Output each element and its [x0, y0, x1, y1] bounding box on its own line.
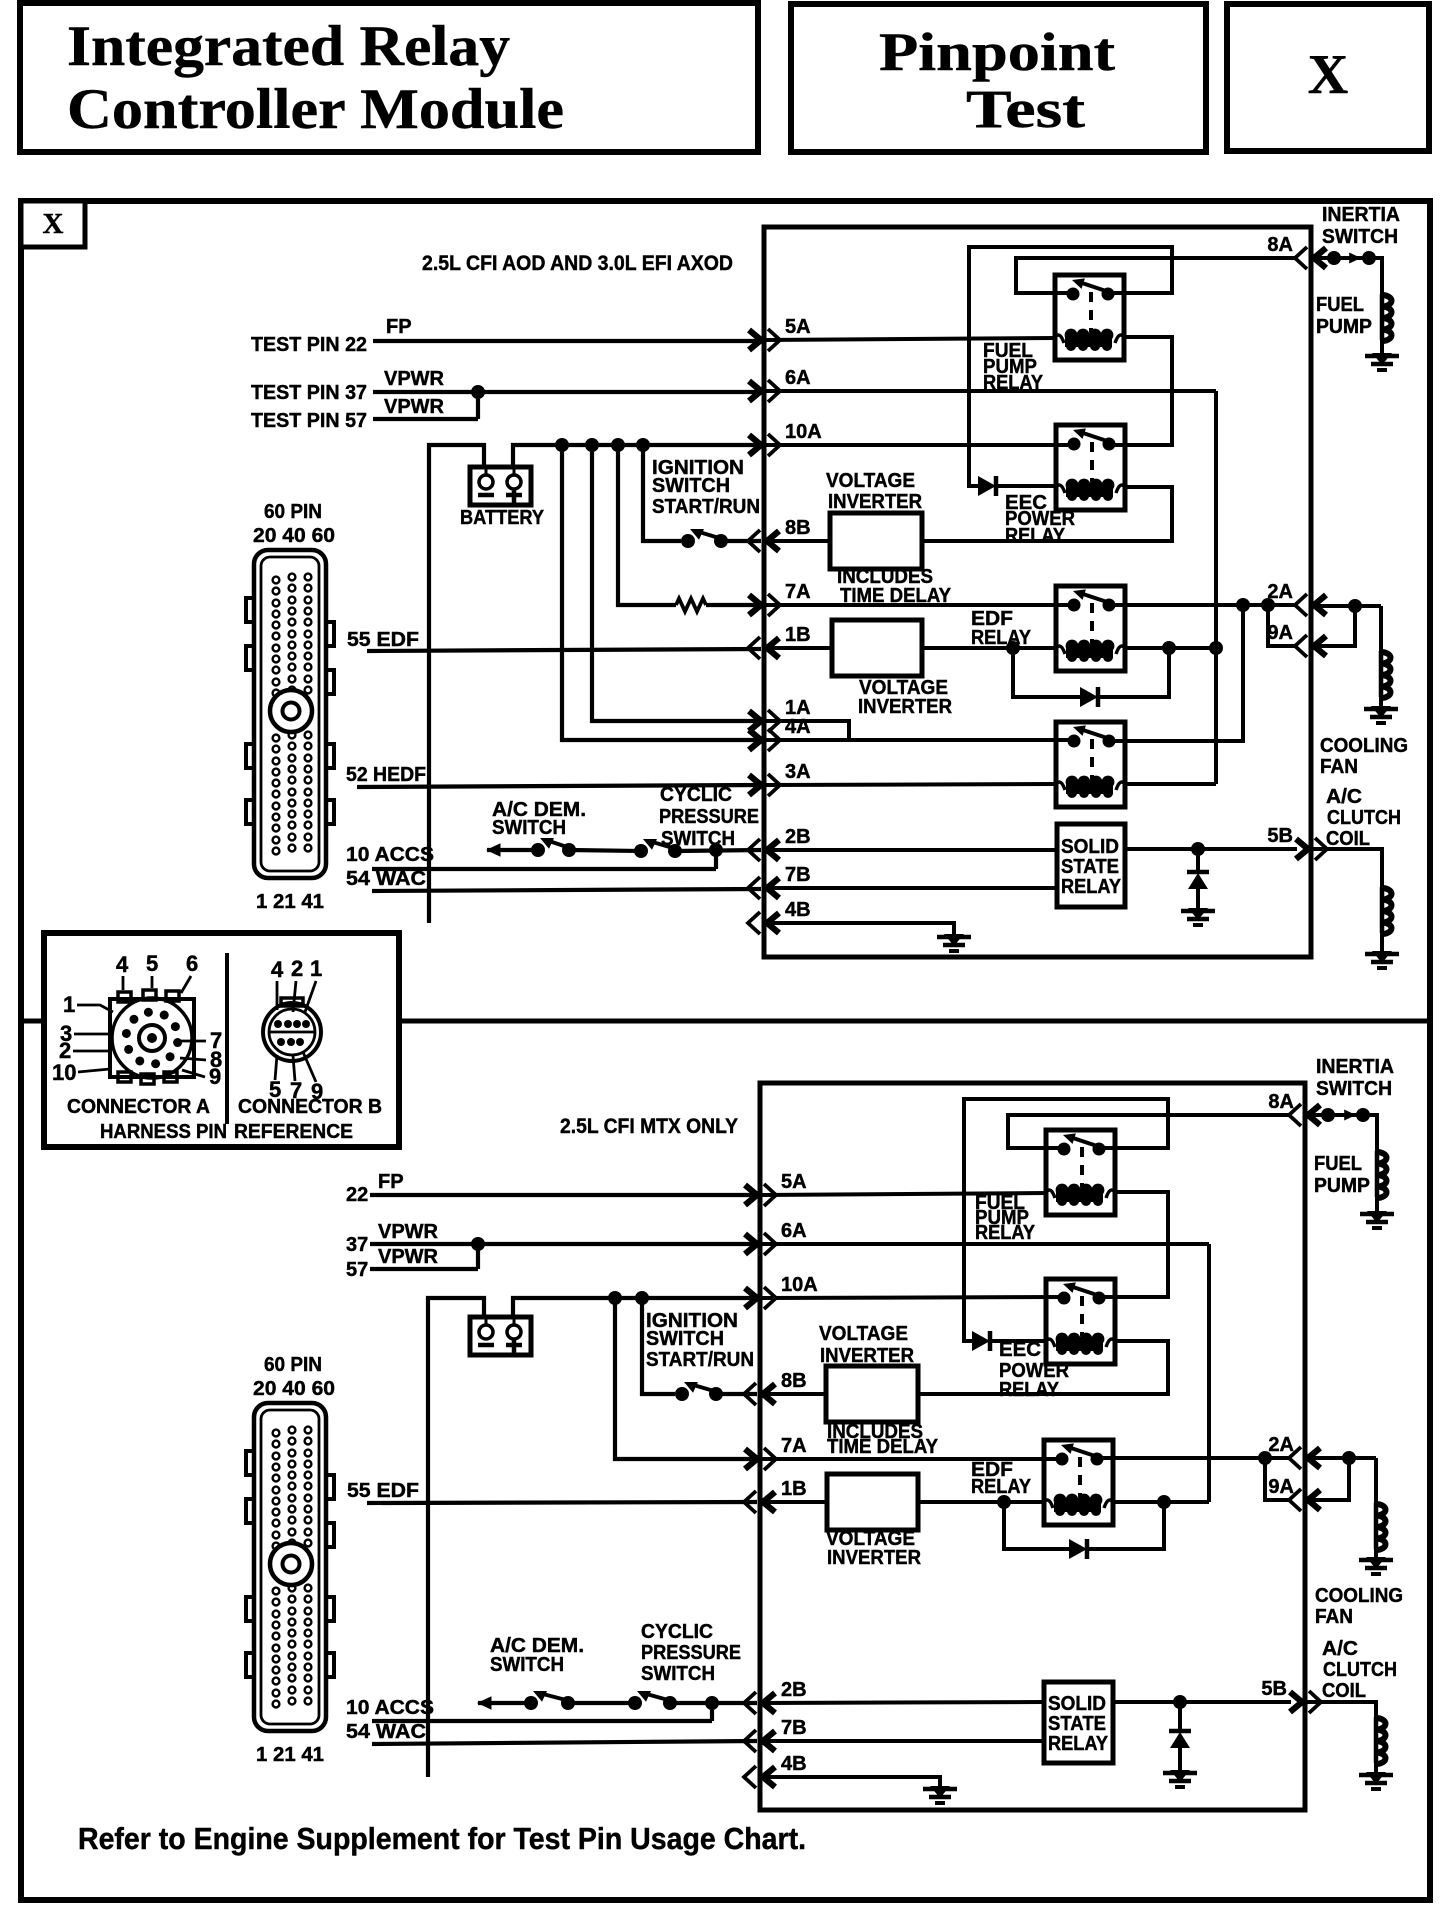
svg-text:7A: 7A: [781, 1435, 807, 1457]
wire 7A to EDF relay switch lower: [760, 1457, 1062, 1461]
solid state relay U6: [1044, 1682, 1113, 1763]
wire 2A to cooling fan: [1311, 604, 1381, 608]
wire 8B to voltage inverter lower: [760, 1392, 826, 1396]
ground clamp diode lower: [1170, 1770, 1190, 1782]
svg-text:RELAY: RELAY: [1048, 1733, 1109, 1755]
wire HEDF relay switch to 2A node: [1109, 605, 1243, 741]
inertia switch S4: [1327, 251, 1341, 265]
svg-text:22: 22: [346, 1184, 368, 1206]
svg-text:10A: 10A: [785, 421, 822, 443]
wire solid state relay to 5B lower: [1113, 1700, 1291, 1704]
svg-text:FAN: FAN: [1315, 1606, 1353, 1628]
wire fuel pump relay coil to EEC relay switch: [1110, 337, 1172, 445]
svg-text:8A: 8A: [1268, 1091, 1294, 1113]
svg-text:7A: 7A: [785, 581, 811, 603]
svg-text:CYCLIC: CYCLIC: [660, 784, 732, 806]
wire to ignition switch: [643, 445, 681, 541]
ground A/C clutch coil lower: [1366, 1772, 1386, 1784]
wire to pin 1A: [592, 445, 761, 721]
wire 10A to EEC power relay switch lower: [760, 1297, 1064, 1298]
wire 6A to EDF coil vertical lower: [760, 1242, 1209, 1246]
pin 10A arrow at module edge: [749, 435, 761, 455]
wire 54 WAC to 7B lower: [372, 1741, 757, 1744]
wire diode to EEC relay coil lower: [990, 1339, 1046, 1343]
wire fuel pump relay switch loop: [969, 247, 1172, 486]
svg-text:5A: 5A: [785, 316, 811, 338]
svg-text:10: 10: [52, 1060, 76, 1085]
wire fuel pump to ground: [1380, 340, 1384, 353]
pin 4B arrow at lower module edge: [763, 1767, 775, 1787]
pin 8A arrow at module edge: [1314, 248, 1326, 268]
svg-text:5B: 5B: [1261, 1678, 1287, 1700]
svg-text:4B: 4B: [781, 1753, 807, 1775]
voltage inverter U2: [832, 620, 922, 676]
svg-text:SWITCH: SWITCH: [492, 817, 566, 839]
junction dot VPWR: [471, 385, 485, 399]
pin 8B arrow at module edge: [767, 531, 779, 551]
svg-text:CYCLIC: CYCLIC: [641, 1621, 713, 1643]
EEC power relay K2: [1056, 425, 1125, 510]
svg-text:REFERENCE: REFERENCE: [234, 1121, 353, 1143]
junction dot 5B clamp: [1191, 842, 1205, 856]
pin 5B arrow at lower module edge: [1290, 1692, 1302, 1712]
wire A/C clutch coil to ground: [1380, 933, 1384, 951]
wire ignition switch to pin 8B: [721, 539, 761, 543]
svg-text:9: 9: [209, 1064, 221, 1089]
ground cooling fan: [1371, 706, 1391, 718]
junction dot 10A-1: [555, 438, 569, 452]
svg-text:FUEL: FUEL: [1314, 1153, 1362, 1175]
wire diode to EEC power relay coil: [996, 484, 1056, 488]
wire 5A to fuel pump relay coil lower: [760, 1193, 1046, 1195]
wire 1B to voltage inverter 2: [764, 646, 832, 650]
diode CR4 to EEC power relay coil lower: [972, 1331, 990, 1351]
junction dot ACCS tap: [709, 843, 723, 857]
wire battery positive to pin 10A: [513, 445, 761, 467]
svg-text:4B: 4B: [785, 899, 811, 921]
wire 6A to HEDF relay coil vertical: [764, 389, 1216, 393]
pin 7A arrow at module edge: [749, 595, 761, 615]
pin 9A arrow at lower module edge: [1308, 1490, 1320, 1510]
A/C demand switch S2: [531, 843, 545, 857]
title block: Integrated Relay Controller Module: [20, 3, 758, 152]
svg-text:PRESSURE: PRESSURE: [641, 1642, 741, 1664]
wire 2A to cooling fan lower: [1305, 1456, 1376, 1460]
svg-text:TEST PIN 37: TEST PIN 37: [251, 382, 367, 404]
solid state relay U3: [1057, 824, 1125, 907]
svg-text:2B: 2B: [781, 1679, 807, 1701]
junction dot 10A-2: [585, 438, 599, 452]
junction dot 5B clamp lower: [1173, 1695, 1187, 1709]
svg-text:RELAY: RELAY: [971, 627, 1032, 649]
EDF relay K3: [1056, 586, 1125, 671]
wire fuel pump to ground lower: [1375, 1197, 1379, 1211]
wire 8A to inertia switch: [1311, 256, 1334, 260]
A/C demand switch S6: [524, 1696, 538, 1710]
svg-text:54 WAC: 54 WAC: [346, 868, 426, 890]
svg-text:COOLING: COOLING: [1315, 1585, 1403, 1607]
junction dot EDF coil right lower: [1157, 1495, 1171, 1509]
svg-text:INVERTER: INVERTER: [858, 696, 953, 718]
pin 1B arrow at lower module edge: [763, 1492, 775, 1512]
svg-text:SWITCH: SWITCH: [641, 1663, 715, 1685]
wire to cyclic pressure switch lower: [568, 1701, 635, 1705]
svg-text:2: 2: [291, 956, 303, 981]
pin 5B arrow at module edge: [1296, 839, 1308, 859]
clamp diode CR3: [1196, 849, 1200, 872]
EDF relay flyback diode CR2: [1013, 648, 1080, 697]
svg-text:START/RUN: START/RUN: [652, 496, 760, 518]
svg-text:EEC: EEC: [999, 1339, 1041, 1361]
wire pin 55 EDF to 1B: [367, 649, 761, 651]
svg-text:TEST PIN 57: TEST PIN 57: [251, 410, 367, 432]
pin 2B arrow at lower module edge: [763, 1693, 775, 1713]
svg-text:9A: 9A: [1268, 1476, 1294, 1498]
svg-text:RELAY: RELAY: [1061, 876, 1122, 898]
svg-text:PRESSURE: PRESSURE: [659, 806, 759, 828]
svg-text:3A: 3A: [785, 761, 811, 783]
svg-text:2B: 2B: [785, 826, 811, 848]
wire A/C demand line with end arrow: [487, 848, 540, 852]
svg-text:INVERTER: INVERTER: [820, 1345, 915, 1367]
wire voltage inverter 2 to EDF relay coil: [922, 646, 1056, 650]
wire to resistor / pin 7A: [618, 445, 676, 605]
pin 7A arrow at lower module edge: [745, 1449, 757, 1469]
junction dot 10A lower 2: [635, 1291, 649, 1305]
pin 4B arrow at module edge: [767, 913, 779, 933]
svg-text:60 PIN: 60 PIN: [264, 501, 322, 523]
wire 4B to internal ground lower: [760, 1777, 940, 1786]
connector A illustration: [110, 999, 194, 1077]
svg-text:FP: FP: [378, 1171, 404, 1193]
svg-text:A/C: A/C: [1322, 1638, 1358, 1660]
svg-text:RELAY: RELAY: [975, 1222, 1036, 1244]
wire pin 10 ACCS: [372, 867, 716, 871]
cyclic pressure switch S7: [628, 1696, 642, 1710]
wire voltage inverter to EEC power relay coil: [922, 487, 1172, 541]
svg-text:7B: 7B: [785, 864, 811, 886]
ground A/C clutch coil: [1372, 951, 1392, 963]
EDF relay flyback diode CR5: [1004, 1502, 1069, 1549]
pin 7B arrow at module edge: [767, 878, 779, 898]
svg-text:4: 4: [116, 952, 129, 977]
pin 1B arrow at module edge: [767, 638, 779, 658]
svg-text:20 40 60: 20 40 60: [253, 525, 335, 547]
pin 10A arrow at lower module edge: [745, 1288, 757, 1308]
svg-text:VPWR: VPWR: [384, 396, 445, 418]
cyclic pressure switch S3: [634, 844, 648, 858]
wire 3A to HEDF relay coil: [764, 784, 1056, 785]
svg-text:PUMP: PUMP: [1314, 1175, 1370, 1197]
svg-text:FP: FP: [386, 316, 412, 338]
svg-text:CLUTCH: CLUTCH: [1327, 807, 1401, 829]
ground fuel pump lower: [1367, 1211, 1387, 1223]
svg-text:8B: 8B: [781, 1370, 807, 1392]
pin 8B arrow at lower module edge: [763, 1384, 775, 1404]
fuel pump relay K1: [1055, 275, 1124, 360]
wire battery negative lower: [428, 1298, 484, 1777]
wire down to cooling fan coil: [1379, 606, 1383, 651]
svg-text:55 EDF: 55 EDF: [347, 629, 419, 651]
svg-text:1B: 1B: [781, 1478, 807, 1500]
svg-text:4: 4: [271, 957, 284, 982]
junction dot EDF coil right: [1162, 641, 1176, 655]
wire 2B to solid state relay lower: [760, 1702, 1044, 1703]
wire cooling fan to ground lower: [1374, 1549, 1378, 1557]
svg-text:6: 6: [186, 951, 198, 976]
fuel pump relay K5: [1046, 1130, 1115, 1215]
svg-text:A/C: A/C: [1326, 786, 1362, 808]
pin 2B arrow at module edge: [767, 840, 779, 860]
junction dot 2A/9A lower: [1342, 1451, 1356, 1465]
wire voltage inverter 2 to EDF relay coil lower: [918, 1500, 1044, 1504]
wire resistor to pin 7A: [706, 603, 761, 607]
svg-text:INERTIA: INERTIA: [1316, 1056, 1394, 1078]
svg-text:FAN: FAN: [1320, 756, 1358, 778]
svg-text:RELAY: RELAY: [999, 1379, 1060, 1401]
junction dot 2A lower: [1258, 1451, 1272, 1465]
wire EDF relay switch to 2A lower: [1097, 1456, 1291, 1460]
svg-text:55 EDF: 55 EDF: [347, 1480, 419, 1502]
wire solid state relay to 5B: [1125, 847, 1297, 851]
svg-text:1: 1: [310, 956, 322, 981]
wire 9A jumper: [1268, 605, 1297, 646]
pin 9A arrow at module edge: [1314, 636, 1326, 656]
fuel pump motor coil M1: [1380, 294, 1385, 340]
pin 5A arrow at lower module edge: [745, 1185, 757, 1205]
connector B illustration: [263, 1003, 321, 1061]
svg-text:STATE: STATE: [1048, 1713, 1106, 1735]
svg-text:1B: 1B: [785, 624, 811, 646]
wire ignition switch to 8B lower: [716, 1392, 757, 1396]
upper integrated relay controller module box: [764, 227, 1311, 957]
svg-text:COIL: COIL: [1326, 828, 1370, 850]
wire battery negative to ground vertical: [429, 445, 484, 923]
svg-text:SWITCH: SWITCH: [652, 475, 730, 497]
wire 8A feed to fuel pump relay switch lower: [1008, 1115, 1291, 1148]
wire fuel pump relay coil to EEC relay switch lower: [1101, 1192, 1168, 1297]
svg-text:START/RUN: START/RUN: [646, 1349, 754, 1371]
junction dot ACCS tap lower: [705, 1696, 719, 1710]
svg-text:20 40 60: 20 40 60: [253, 1378, 335, 1400]
svg-text:10 ACCS: 10 ACCS: [346, 1697, 434, 1719]
pin 3A arrow at module edge: [749, 775, 761, 795]
wire VPWR 57 lower: [370, 1267, 478, 1271]
svg-text:TIME DELAY: TIME DELAY: [827, 1436, 939, 1458]
wire 4B to internal ground: [764, 923, 954, 934]
junction dot VPWR lower: [471, 1237, 485, 1251]
wire to cyclic pressure switch: [569, 850, 641, 851]
svg-text:1 21 41: 1 21 41: [256, 1744, 324, 1766]
wire 10 ACCS lower: [372, 1719, 712, 1723]
svg-text:PUMP: PUMP: [1316, 316, 1372, 338]
svg-text:2A: 2A: [1268, 1434, 1294, 1456]
ground fuel pump: [1372, 353, 1392, 365]
resistor R1: [676, 599, 706, 612]
svg-text:60 PIN: 60 PIN: [264, 1354, 322, 1376]
wire 7A to EDF relay switch: [764, 603, 1074, 607]
wire 9A external jumper lower: [1305, 1458, 1349, 1500]
pin 7B arrow at lower module edge: [763, 1731, 775, 1751]
svg-text:COIL: COIL: [1322, 1680, 1366, 1702]
wire voltage inverter to EEC relay coil lower: [918, 1341, 1168, 1394]
svg-text:37: 37: [346, 1234, 368, 1256]
voltage inverter U5: [827, 1474, 918, 1530]
wire inertia switch to fuel pump: [1369, 258, 1382, 294]
diode CR1 to EEC power relay coil: [978, 476, 996, 496]
pin 2A arrow at module edge: [1314, 595, 1326, 615]
svg-text:Refer to Engine Supplement for: Refer to Engine Supplement for Test Pin …: [78, 1821, 806, 1856]
lower integrated relay controller module box: [760, 1083, 1305, 1810]
junction dot 10A-3: [611, 438, 625, 452]
svg-text:COOLING: COOLING: [1320, 735, 1408, 757]
wire down to cooling fan coil lower: [1374, 1458, 1378, 1503]
svg-text:INVERTER: INVERTER: [827, 1547, 922, 1569]
wire 8A to inertia switch lower: [1305, 1113, 1328, 1117]
wire 2B to solid state relay: [764, 848, 1057, 852]
svg-text:10A: 10A: [781, 1274, 818, 1296]
pin 4A arrow at module edge: [749, 730, 761, 750]
connector A leader lines: [122, 976, 125, 990]
svg-text:Test: Test: [966, 79, 1085, 139]
EDF relay K7: [1044, 1440, 1113, 1525]
junction dot 10A-4: [636, 438, 650, 452]
svg-text:2.5L CFI AOD AND 3.0L EFI AXOD: 2.5L CFI AOD AND 3.0L EFI AXOD: [422, 252, 733, 275]
svg-text:STATE: STATE: [1061, 856, 1119, 878]
wire 55 EDF to 1B lower: [367, 1502, 757, 1503]
wire pin 52 HEDF to 3A: [357, 785, 761, 787]
svg-text:VPWR: VPWR: [384, 368, 445, 390]
wire to ignition switch lower: [642, 1298, 675, 1394]
svg-text:SOLID: SOLID: [1061, 836, 1119, 858]
connector reference divider: [225, 953, 229, 1124]
wire inertia switch to fuel pump lower: [1363, 1115, 1377, 1151]
svg-text:2.5L CFI MTX ONLY: 2.5L CFI MTX ONLY: [560, 1115, 738, 1138]
svg-text:Controller Module: Controller Module: [67, 78, 564, 141]
svg-text:RELAY: RELAY: [971, 1476, 1032, 1498]
svg-text:TEST PIN 22: TEST PIN 22: [251, 334, 367, 356]
svg-text:VOLTAGE: VOLTAGE: [819, 1323, 908, 1345]
cooling fan motor coil M4: [1374, 1503, 1379, 1549]
wire 9A external jumper: [1311, 606, 1355, 646]
ignition switch S1: [681, 534, 695, 548]
fuel pump motor coil M3: [1375, 1151, 1380, 1197]
wire A/C demand line lower: [478, 1701, 533, 1705]
svg-text:CONNECTOR A: CONNECTOR A: [67, 1096, 210, 1118]
ground 4B internal lower: [930, 1786, 950, 1798]
wire battery positive to 10A lower: [513, 1298, 757, 1317]
ground 4B internal: [944, 934, 964, 946]
connector reference box: [44, 933, 399, 1147]
junction dot EDF-2A 2: [1261, 598, 1275, 612]
voltage inverter U1 (includes time delay): [830, 513, 922, 569]
svg-text:7B: 7B: [781, 1717, 807, 1739]
wire EDF relay switch to 2A: [1109, 603, 1297, 607]
wire VPWR 37 lower: [370, 1242, 757, 1246]
svg-text:6A: 6A: [785, 367, 811, 389]
svg-text:X: X: [1308, 44, 1348, 106]
wire 9A jumper lower: [1265, 1458, 1291, 1500]
pin 6A arrow at lower module edge: [745, 1234, 757, 1254]
svg-text:SOLID: SOLID: [1048, 1693, 1106, 1715]
ground cooling fan lower: [1366, 1557, 1386, 1569]
wire 5A to fuel pump relay coil: [764, 338, 1055, 340]
svg-text:INVERTER: INVERTER: [828, 491, 923, 513]
junction dot 2A/9A: [1348, 599, 1362, 613]
wire 10A to EEC power relay switch: [764, 443, 1074, 447]
wire EDF relay coil right lower: [1113, 1500, 1209, 1504]
60 pin connector C2: [254, 1403, 326, 1731]
inertia switch S8: [1321, 1108, 1335, 1122]
EEC power relay K6: [1046, 1279, 1115, 1364]
corner label box X: [21, 201, 85, 247]
wire to pin 4A: [562, 445, 761, 740]
svg-text:5A: 5A: [781, 1171, 807, 1193]
wire 1B to voltage inverter 2 lower: [760, 1500, 827, 1504]
svg-text:6A: 6A: [781, 1220, 807, 1242]
wire EDF relay coil to 6A vertical: [1124, 646, 1216, 650]
battery B2: [470, 1317, 531, 1355]
wire 8B to voltage inverter: [764, 539, 830, 543]
svg-text:INERTIA: INERTIA: [1322, 204, 1400, 226]
wire VPWR 57: [373, 417, 478, 421]
svg-text:SWITCH: SWITCH: [1322, 226, 1398, 248]
svg-text:10 ACCS: 10 ACCS: [346, 844, 434, 866]
junction dot EDF-2A 1: [1236, 598, 1250, 612]
wire 1A jumper to 4A: [764, 721, 849, 740]
svg-text:VPWR: VPWR: [378, 1246, 439, 1268]
wire A/C clutch coil to ground lower: [1374, 1763, 1378, 1772]
wire FP to pin 5A: [373, 339, 761, 343]
wire fuel pump relay switch loop lower: [964, 1099, 1168, 1341]
title block: Pinpoint Test: [791, 4, 1206, 152]
pin 8A arrow at lower module edge: [1308, 1105, 1320, 1125]
pin 6A arrow at module edge: [749, 381, 761, 401]
wire to pin 2B: [675, 850, 761, 851]
ignition switch S5: [675, 1387, 689, 1401]
svg-text:8A: 8A: [1267, 234, 1293, 256]
svg-text:1 21 41: 1 21 41: [256, 891, 324, 913]
svg-text:X: X: [43, 208, 64, 240]
wire to pin 7A lower: [615, 1298, 757, 1459]
svg-text:SWITCH: SWITCH: [1316, 1078, 1392, 1100]
svg-text:RELAY: RELAY: [1005, 525, 1066, 547]
60 pin connector C1: [254, 550, 326, 878]
svg-text:SWITCH: SWITCH: [646, 1328, 724, 1350]
wire VPWR 37 to pin 6A: [373, 390, 761, 394]
A/C clutch coil L1: [1380, 887, 1385, 933]
svg-text:CLUTCH: CLUTCH: [1323, 1659, 1397, 1681]
wire pin 54 WAC to 7B: [372, 889, 761, 891]
svg-text:CONNECTOR B: CONNECTOR B: [238, 1096, 382, 1118]
pin 2A arrow at lower module edge: [1308, 1448, 1320, 1468]
pin 1A arrow at module edge: [749, 711, 761, 731]
svg-text:VOLTAGE: VOLTAGE: [826, 470, 915, 492]
junction dot EDF coil left: [1006, 641, 1020, 655]
wire 7B to solid state relay lower: [760, 1739, 1044, 1743]
voltage inverter U4 (includes time delay): [826, 1366, 918, 1422]
clamp diode CR6: [1178, 1702, 1182, 1731]
ground clamp diode: [1188, 908, 1208, 920]
svg-text:SWITCH: SWITCH: [490, 1654, 564, 1676]
svg-text:8B: 8B: [785, 517, 811, 539]
pin 5A arrow at module edge: [749, 330, 761, 350]
wire 8A feed to fuel pump relay switch: [1016, 258, 1297, 293]
svg-text:1: 1: [63, 992, 75, 1017]
junction dot EDF coil left lower: [997, 1495, 1011, 1509]
wire cooling fan to ground: [1379, 697, 1383, 706]
cooling fan motor coil M2: [1379, 651, 1384, 697]
